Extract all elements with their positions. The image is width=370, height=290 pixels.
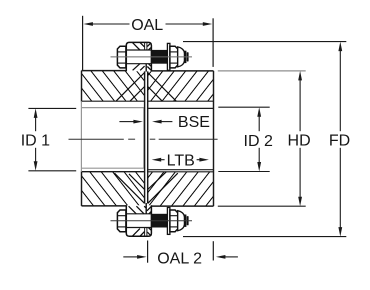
left hub hatched flange bottom: [82, 172, 145, 206]
top bolt centerline: [111, 56, 193, 58]
split line right face: [147, 71, 149, 203]
right hub outline: [151, 71, 214, 206]
svg-text:OAL 2: OAL 2: [157, 251, 202, 268]
split line left face: [144, 71, 146, 203]
svg-text:FD: FD: [329, 132, 350, 149]
bottom bolt cone end: [178, 211, 185, 231]
dimension ID 2: [218, 107, 273, 171]
bottom bolt head: [117, 210, 126, 232]
top bolt washer: [167, 43, 170, 70]
dimension ID 1: [21, 108, 76, 170]
top bolt threads: [151, 50, 167, 64]
svg-text:LTB: LTB: [167, 152, 195, 169]
svg-text:ID 2: ID 2: [244, 133, 273, 150]
svg-text:BSE: BSE: [178, 114, 210, 131]
main centerline: [69, 138, 218, 140]
dimension BSE: [119, 114, 210, 131]
split-zone converging hatch overlay: [115, 73, 178, 204]
left hub hatched flange top: [82, 71, 145, 102]
bottom bolt washer: [167, 208, 170, 235]
svg-text:OAL: OAL: [131, 17, 163, 34]
dimension HD: [218, 71, 311, 206]
bottom bolt threads: [151, 214, 167, 228]
bottom clamp lug: [126, 203, 151, 236]
right hub hatched flange bottom: [148, 172, 214, 206]
right hub hatched flange top: [148, 71, 214, 101]
top bolt tip: [184, 51, 186, 63]
svg-text:ID 1: ID 1: [21, 133, 50, 150]
shaft 1 (gray) in left bore: [81, 101, 143, 172]
bottom bolt tip: [184, 215, 186, 227]
top bolt nut: [170, 46, 178, 68]
top bolt cone end: [178, 47, 185, 67]
top clamp lug: [126, 42, 151, 71]
dimension OAL: [83, 16, 214, 70]
bottom bolt centerline: [111, 220, 193, 222]
dimension LTB: [152, 152, 209, 169]
top bolt head: [117, 46, 126, 68]
shaft 2 bore lines in right hub: [148, 108, 214, 169]
dimension FD: [183, 42, 350, 237]
bottom bolt nut: [170, 210, 178, 232]
left hub outline: [82, 71, 128, 206]
dimension OAL 2: [123, 241, 238, 268]
svg-text:HD: HD: [288, 133, 311, 150]
